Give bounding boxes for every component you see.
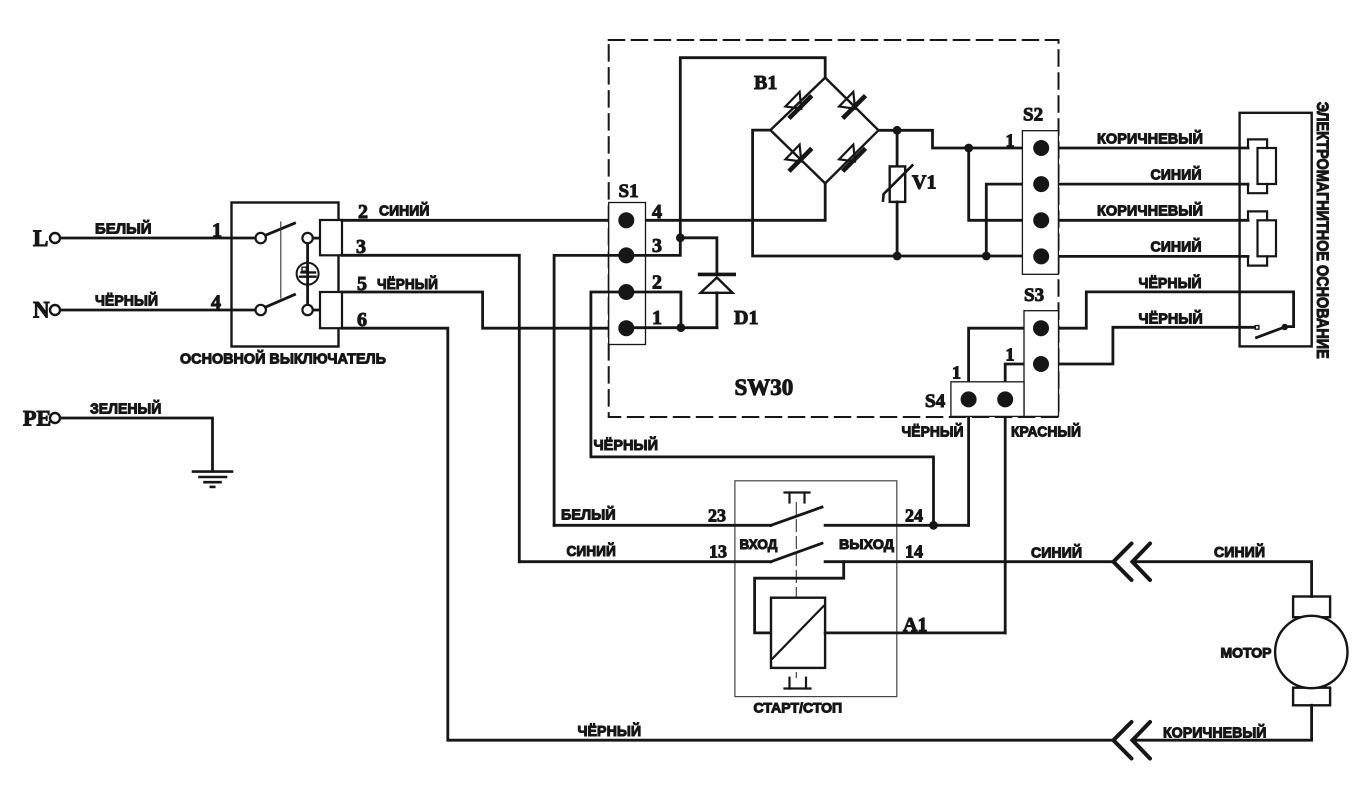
B1 diode top-left	[785, 92, 810, 117]
bridge rectifier B1 outline	[770, 78, 878, 184]
wire brown from motor	[1132, 705, 1311, 740]
svg-text:ЧЁРНЫЙ: ЧЁРНЫЙ	[95, 292, 158, 310]
wire branch to S2 pin 2	[986, 184, 1033, 256]
S2 pin 2	[1033, 176, 1049, 192]
wire branch to S2 pin 3	[969, 148, 1033, 220]
svg-text:ЧЁРНЫЙ: ЧЁРНЫЙ	[594, 436, 659, 454]
node D1 cathode branch	[676, 233, 685, 242]
svg-text:S2: S2	[1023, 105, 1043, 126]
svg-text:4: 4	[652, 201, 662, 223]
pushbutton actuator symbol top	[785, 493, 810, 503]
svg-text:13: 13	[709, 542, 727, 562]
main switch contact 1-2	[256, 223, 320, 243]
svg-text:ЧЁРНЫЙ: ЧЁРНЫЙ	[377, 275, 438, 293]
svg-text:ЧЁРНЫЙ: ЧЁРНЫЙ	[1139, 310, 1203, 328]
svg-text:СИНИЙ: СИНИЙ	[1151, 166, 1202, 184]
wire S1 pin 3 to bridge top corner	[626, 58, 825, 256]
wire S3 pin 2 to S4 pin 2	[1005, 364, 1041, 399]
wire БЕЛЫЙ into contact 23	[554, 524, 771, 527]
svg-text:SW30: SW30	[735, 375, 794, 400]
wire S1 pin 2 to ЧЁРНЫЙ control wire	[591, 292, 934, 525]
terminal L	[33, 226, 60, 251]
connector S1 box	[609, 203, 646, 345]
svg-text:СИНИЙ: СИНИЙ	[1151, 238, 1202, 256]
terminal PE	[23, 406, 60, 431]
svg-text:3: 3	[652, 235, 662, 257]
motor brush bottom	[1293, 688, 1330, 706]
wire bridge left corner to DC minus rail	[753, 130, 1034, 256]
wire 6 down to bottom black wire	[342, 328, 1113, 740]
terminal tab 5-6 of main switch	[320, 292, 342, 328]
motor body	[1275, 616, 1347, 688]
main switch contact 4-5	[256, 295, 320, 316]
wire S3 pin 1 to base switch (upper ЧЁРНЫЙ)	[1041, 292, 1294, 328]
terminal tab 2-3 of main switch	[320, 220, 342, 255]
wire 14 branch to relay coil	[755, 562, 844, 633]
terminal N	[33, 298, 60, 323]
node V1 top	[893, 126, 902, 135]
main switch box	[232, 203, 339, 347]
svg-text:СТАРТ/СТОП: СТАРТ/СТОП	[754, 700, 843, 716]
svg-text:S1: S1	[619, 181, 639, 202]
svg-text:КРАСНЫЙ: КРАСНЫЙ	[1011, 423, 1081, 441]
wire S2 pin 1 to coil 1 (КОРИЧНЕВЫЙ)	[1049, 147, 1248, 150]
coil 1 of electromagnetic base	[1248, 139, 1276, 193]
S4 pin 2	[997, 391, 1013, 407]
svg-text:1: 1	[952, 363, 961, 383]
diode D1	[700, 274, 735, 327]
svg-text:N: N	[33, 298, 50, 323]
svg-text:БЕЛЫЙ: БЕЛЫЙ	[561, 506, 616, 524]
SW30 dashed enclosure	[609, 40, 1059, 417]
ground	[193, 472, 232, 487]
wire A1 from relay to S4 pin 2	[825, 632, 1005, 635]
wire S1 pin 1 to D1 anode	[634, 326, 717, 329]
wire PE to ground	[61, 418, 213, 470]
svg-text:СИНИЙ: СИНИЙ	[567, 542, 616, 560]
svg-text:2: 2	[358, 201, 368, 223]
svg-text:1: 1	[1006, 345, 1015, 365]
S1 pin 4	[618, 212, 634, 228]
connector chevrons on brown/black wire	[1113, 722, 1150, 759]
S2 pin 3	[1033, 212, 1049, 228]
node S2 minus branch	[982, 252, 991, 261]
svg-text:ВЫХОД: ВЫХОД	[839, 536, 894, 552]
wire S3 pin 1 to S4 pin 1	[969, 328, 1041, 399]
svg-text:КОРИЧНЕВЫЙ: КОРИЧНЕВЫЙ	[1163, 724, 1267, 742]
svg-text:ЧЁРНЫЙ: ЧЁРНЫЙ	[1139, 274, 1202, 292]
B1 diode bottom-left	[785, 145, 810, 170]
node D1 anode junction	[677, 323, 686, 332]
wire S1 pin 3 to contact 23 (БЕЛЫЙ)	[554, 255, 626, 525]
svg-text:L: L	[33, 226, 48, 251]
B1 diode bottom-right	[839, 145, 864, 170]
svg-text:S3: S3	[1024, 285, 1044, 306]
svg-text:ЧЁРНЫЙ: ЧЁРНЫЙ	[902, 423, 964, 441]
wire between switch contacts through button	[306, 244, 309, 305]
svg-text:V1: V1	[912, 172, 936, 194]
wire S2 pin 4 to coil 2 (СИНИЙ)	[1049, 255, 1248, 258]
wire 2 (СИНИЙ) from main switch to S1 pin 4 and bridge AC	[342, 183, 825, 220]
node S2 plus branch	[964, 144, 973, 153]
S3 pin 2	[1033, 356, 1049, 372]
svg-text:23: 23	[708, 506, 726, 526]
node V1 bottom	[893, 252, 902, 261]
wire 14 to motor connector	[825, 560, 1113, 563]
svg-text:ЧЁРНЫЙ: ЧЁРНЫЙ	[578, 722, 642, 740]
svg-text:1: 1	[652, 307, 662, 329]
wire bridge right corner to DC plus rail	[879, 130, 1034, 148]
latch symbol bottom	[785, 678, 811, 689]
wire L to main switch pin 1	[61, 237, 256, 240]
svg-text:5: 5	[357, 273, 367, 295]
svg-text:КОРИЧНЕВЫЙ: КОРИЧНЕВЫЙ	[1097, 130, 1203, 148]
wire 3 from main switch down to contact 13	[342, 255, 519, 561]
base auto switch	[1255, 324, 1293, 338]
svg-text:S4: S4	[925, 391, 946, 412]
wire N to main switch pin 4	[61, 309, 256, 312]
svg-text:ЭЛЕКТРОМАГНИТНОЕ ОСНОВАНИЕ: ЭЛЕКТРОМАГНИТНОЕ ОСНОВАНИЕ	[1313, 102, 1332, 359]
wire junction to D1 cathode	[680, 238, 717, 273]
svg-text:ОСНОВНОЙ ВЫКЛЮЧАТЕЛЬ: ОСНОВНОЙ ВЫКЛЮЧАТЕЛЬ	[180, 350, 386, 368]
svg-text:2: 2	[652, 272, 662, 294]
thermal button symbol	[297, 263, 319, 285]
wire 24 to S4 pin 1	[825, 524, 969, 527]
svg-text:D1: D1	[734, 307, 758, 329]
wire 13 into contact	[519, 560, 771, 563]
actuator link dash line	[795, 503, 797, 678]
svg-text:A1: A1	[903, 614, 927, 636]
svg-text:ЗЕЛЕНЫЙ: ЗЕЛЕНЫЙ	[90, 400, 161, 418]
motor brush top	[1293, 597, 1330, 618]
varistor V1	[883, 130, 912, 256]
start/stop station box	[735, 481, 897, 697]
connector S2 box	[1022, 131, 1058, 275]
svg-text:24: 24	[905, 506, 923, 526]
electromagnetic base box	[1240, 113, 1312, 347]
svg-text:PE: PE	[23, 406, 51, 431]
S2 pin 4	[1033, 248, 1049, 264]
connector S4 box	[951, 382, 1024, 417]
svg-text:СИНИЙ: СИНИЙ	[1031, 544, 1082, 562]
coil 2 of electromagnetic base	[1248, 211, 1276, 265]
svg-text:6: 6	[357, 309, 367, 331]
wire blue to motor	[1132, 562, 1311, 597]
svg-text:3: 3	[356, 236, 366, 258]
svg-text:СИНИЙ: СИНИЙ	[1214, 543, 1265, 561]
connector S3 box	[1024, 311, 1059, 417]
svg-text:СИНИЙ: СИНИЙ	[379, 202, 429, 220]
contact 13-14 blade	[771, 543, 822, 561]
mechanical linkage line	[280, 222, 282, 298]
B1 diode top-right	[839, 92, 864, 117]
wire S1 pin 2 jog to pin 1 net	[626, 292, 681, 328]
wire S2 pin 2 to coil 1 (СИНИЙ)	[1049, 183, 1248, 186]
wire S4 pin 1 down to wire 24	[967, 399, 970, 525]
connector chevrons on blue motor wire	[1113, 544, 1150, 581]
wire S3 pin 2 to base switch contact (lower ЧЁРНЫЙ)	[1041, 327, 1254, 364]
svg-text:1: 1	[1006, 131, 1015, 151]
S2 pin 1	[1033, 140, 1049, 156]
svg-text:4: 4	[211, 292, 221, 314]
S1 pin 3	[618, 247, 634, 263]
relay coil of start/stop	[771, 598, 825, 668]
S3 pin 1	[1033, 320, 1049, 336]
wire S2 pin 3 to coil 2 (КОРИЧНЕВЫЙ)	[1049, 219, 1248, 222]
wire S4 pin 2 down to A1	[1004, 399, 1007, 633]
svg-text:ВХОД: ВХОД	[740, 536, 778, 552]
svg-text:B1: B1	[754, 72, 777, 94]
contact 23-24 blade	[771, 507, 822, 525]
svg-text:МОТОР: МОТОР	[1221, 646, 1272, 661]
node wire 24 junction	[929, 521, 938, 530]
wire 5 (ЧЁРНЫЙ) from main switch to S1 pin 1	[342, 292, 618, 328]
S1 pin 1	[618, 320, 634, 336]
S1 pin 2	[618, 284, 634, 300]
svg-text:КОРИЧНЕВЫЙ: КОРИЧНЕВЫЙ	[1097, 202, 1203, 220]
svg-text:БЕЛЫЙ: БЕЛЫЙ	[95, 220, 152, 238]
svg-text:1: 1	[212, 220, 222, 242]
S4 pin 1	[961, 391, 977, 407]
svg-text:14: 14	[905, 542, 923, 562]
